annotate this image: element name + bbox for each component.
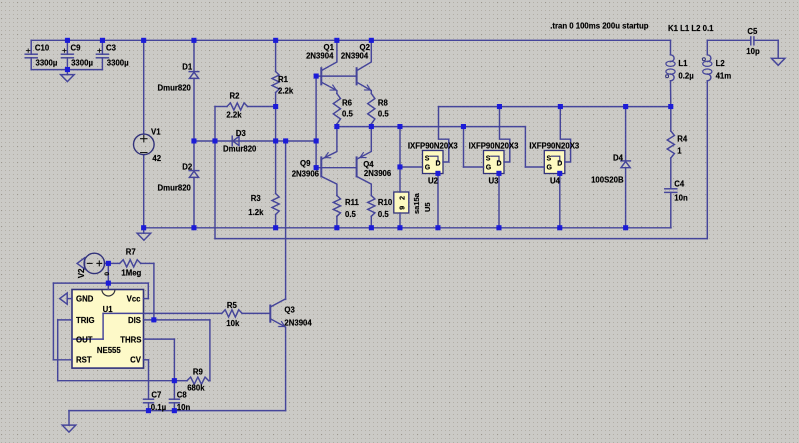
- svg-text:G: G: [486, 165, 492, 172]
- svg-text:2N3904: 2N3904: [306, 52, 334, 61]
- svg-text:C10: C10: [35, 44, 50, 53]
- svg-text:10p: 10p: [746, 47, 760, 56]
- svg-text:1Meg: 1Meg: [121, 269, 141, 278]
- svg-text:D4: D4: [613, 153, 624, 162]
- svg-text:2.2k: 2.2k: [278, 87, 294, 96]
- svg-text:G: G: [425, 165, 431, 172]
- svg-text:Vcc: Vcc: [127, 295, 142, 304]
- svg-text:10n: 10n: [177, 403, 191, 412]
- svg-text:2N3904: 2N3904: [341, 52, 369, 61]
- svg-text:NE555: NE555: [97, 346, 122, 355]
- svg-text:L2: L2: [716, 59, 726, 68]
- svg-text:Q4: Q4: [363, 160, 374, 169]
- svg-text:C7: C7: [151, 391, 161, 400]
- svg-text:C5: C5: [747, 27, 758, 36]
- svg-text:0.5: 0.5: [378, 210, 390, 219]
- svg-text:D: D: [436, 161, 441, 168]
- svg-text:R11: R11: [345, 198, 360, 207]
- svg-text:U5: U5: [423, 202, 432, 212]
- svg-text:IXFP90N20X3: IXFP90N20X3: [408, 142, 459, 151]
- svg-text:680k: 680k: [187, 383, 205, 392]
- svg-text:THRS: THRS: [120, 335, 141, 344]
- svg-text:R2: R2: [230, 92, 241, 101]
- svg-text:3300µ: 3300µ: [71, 58, 93, 67]
- svg-text:10k: 10k: [226, 319, 240, 328]
- svg-text:V2: V2: [77, 268, 86, 278]
- svg-text:S: S: [547, 155, 552, 162]
- svg-text:D: D: [497, 161, 502, 168]
- svg-text:GND: GND: [76, 295, 94, 304]
- svg-text:sa15a: sa15a: [412, 192, 421, 214]
- svg-text:IXFP90N20X3: IXFP90N20X3: [469, 142, 520, 151]
- svg-text:Dmur820: Dmur820: [158, 184, 192, 193]
- svg-text:0.1µ: 0.1µ: [151, 403, 167, 412]
- svg-text:D3: D3: [236, 129, 247, 138]
- svg-text:U2: U2: [428, 177, 439, 186]
- svg-text:R7: R7: [126, 248, 136, 257]
- svg-text:CV: CV: [130, 356, 142, 365]
- svg-text:2N3906: 2N3906: [364, 169, 392, 178]
- svg-text:C9: C9: [71, 44, 82, 53]
- svg-text:0: 0: [104, 272, 111, 276]
- svg-text:.tran 0 100ms 200u startup: .tran 0 100ms 200u startup: [550, 22, 649, 31]
- svg-text:V1: V1: [151, 128, 161, 137]
- svg-text:2N3906: 2N3906: [292, 170, 320, 179]
- svg-text:3300µ: 3300µ: [107, 58, 129, 67]
- svg-text:C3: C3: [106, 44, 117, 53]
- svg-text:D2: D2: [182, 162, 193, 171]
- svg-text:1: 1: [677, 146, 682, 155]
- svg-text:D: D: [557, 161, 562, 168]
- svg-text:R6: R6: [342, 99, 353, 108]
- svg-text:R5: R5: [227, 301, 238, 310]
- svg-text:S: S: [425, 155, 430, 162]
- svg-text:Dmur820: Dmur820: [158, 84, 192, 93]
- svg-text:Q3: Q3: [284, 306, 295, 315]
- svg-text:TRIG: TRIG: [76, 316, 95, 325]
- svg-text:1.2k: 1.2k: [248, 208, 264, 217]
- svg-text:U3: U3: [489, 177, 500, 186]
- svg-text:U1: U1: [103, 305, 114, 314]
- svg-text:0.2µ: 0.2µ: [678, 72, 694, 81]
- svg-text:10n: 10n: [674, 193, 688, 202]
- svg-text:R10: R10: [378, 198, 393, 207]
- svg-text:C8: C8: [177, 391, 188, 400]
- svg-text:R3: R3: [251, 194, 262, 203]
- svg-text:DIS: DIS: [128, 316, 141, 325]
- svg-text:D1: D1: [182, 63, 193, 72]
- svg-text:2: 2: [399, 196, 406, 200]
- svg-text:9: 9: [399, 206, 406, 210]
- svg-text:OUT: OUT: [76, 335, 93, 344]
- svg-text:100S20B: 100S20B: [591, 175, 624, 184]
- svg-text:C4: C4: [674, 180, 685, 189]
- svg-text:G: G: [547, 165, 553, 172]
- svg-text:Q9: Q9: [300, 159, 311, 168]
- svg-text:IXFP90N20X3: IXFP90N20X3: [529, 142, 580, 151]
- svg-text:42: 42: [152, 154, 161, 163]
- svg-text:R9: R9: [193, 367, 204, 376]
- svg-text:RST: RST: [76, 356, 92, 365]
- svg-text:0.5: 0.5: [378, 110, 390, 119]
- svg-text:0.5: 0.5: [342, 110, 354, 119]
- svg-text:Q2: Q2: [360, 43, 371, 52]
- svg-text:Q1: Q1: [324, 43, 335, 52]
- svg-text:41m: 41m: [716, 72, 732, 81]
- svg-text:R1: R1: [278, 75, 289, 84]
- svg-text:R4: R4: [677, 135, 688, 144]
- svg-text:L1: L1: [678, 59, 688, 68]
- svg-text:2.2k: 2.2k: [226, 111, 242, 120]
- svg-text:S: S: [486, 155, 491, 162]
- svg-text:R8: R8: [378, 99, 389, 108]
- svg-text:Dmur820: Dmur820: [223, 145, 257, 154]
- svg-text:0.5: 0.5: [345, 210, 357, 219]
- svg-text:3300µ: 3300µ: [36, 58, 58, 67]
- svg-text:K1 L1 L2 0.1: K1 L1 L2 0.1: [668, 24, 714, 33]
- svg-text:U4: U4: [550, 177, 561, 186]
- svg-text:2N3904: 2N3904: [284, 319, 312, 328]
